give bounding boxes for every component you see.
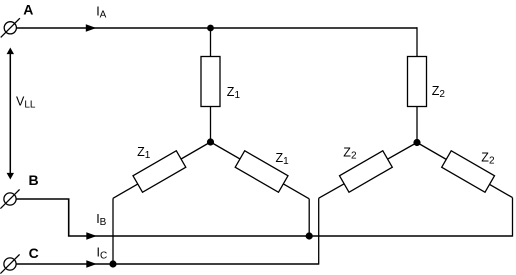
arrow IB — [86, 232, 97, 239]
wire phase B — [16, 199, 512, 236]
wire Z1 left branch diagonal — [113, 142, 211, 198]
arrow IA — [86, 24, 97, 31]
source B terminal (circle with slash) — [0, 189, 19, 208]
wire Z2 vertical to node N2 — [416, 107, 418, 143]
wire Z2 right branch vertical to B bus end — [512, 198, 514, 237]
resistor Z1 left diagonal — [133, 151, 186, 192]
wire Z1 right branch diagonal — [211, 142, 310, 199]
node N2 (Z2 wye center) — [413, 139, 420, 146]
wire Z1 vertical to node N1 — [210, 107, 212, 143]
wire Z2 left branch vertical to C bus end — [318, 198, 320, 264]
wire phase A top — [16, 27, 417, 29]
resistor Z1 vertical — [201, 57, 220, 107]
source C terminal (circle with slash) — [0, 254, 19, 273]
VLL double arrow — [9, 52, 11, 175]
node N1 (Z1 wye center) — [207, 138, 214, 145]
node junction top (phase A to Z1 branch) — [207, 25, 214, 32]
wire Z2 left branch diagonal — [319, 143, 417, 199]
wire phase C — [16, 263, 319, 265]
resistor Z2 right diagonal — [442, 151, 495, 192]
svg-text:B: B — [29, 172, 39, 188]
svg-text:C: C — [29, 245, 39, 261]
source A terminal (circle with slash) — [1, 18, 20, 37]
node junction on C bus — [109, 260, 116, 267]
wire phase A corner down to Z2 vertical — [416, 27, 418, 56]
wire Z1 left branch vertical to C bus — [112, 198, 114, 264]
resistor Z2 left diagonal — [339, 151, 392, 192]
node junction on B bus — [306, 232, 313, 239]
wire junction to Z1 vertical — [210, 28, 212, 57]
wire Z2 right branch diagonal — [417, 143, 513, 198]
svg-text:A: A — [23, 2, 33, 18]
resistor Z1 right diagonal — [235, 151, 288, 192]
wire Z1 right branch vertical to B bus — [308, 199, 310, 236]
resistor Z2 vertical — [408, 57, 427, 107]
arrow IC — [86, 260, 97, 267]
